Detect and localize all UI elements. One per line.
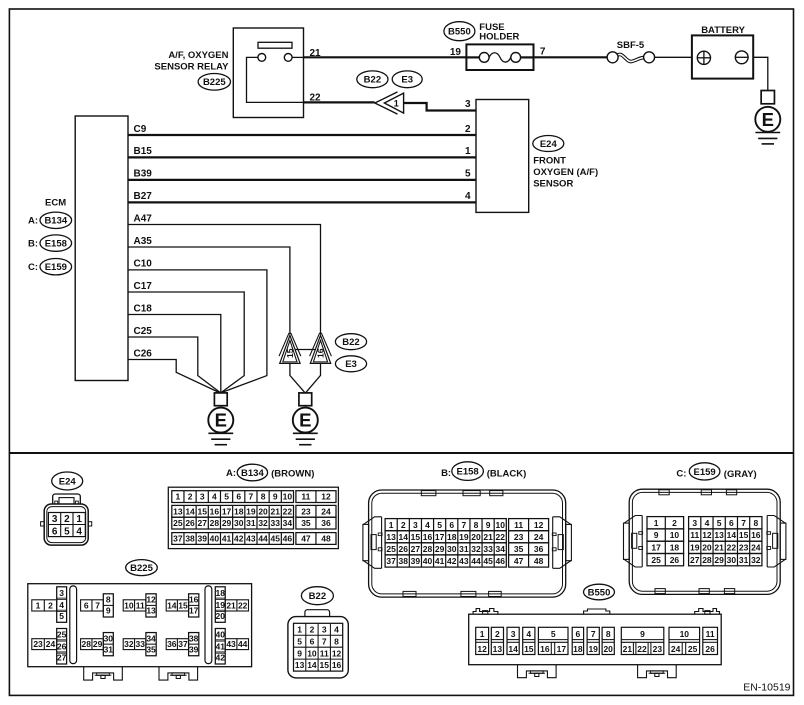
connector B134 pin grid [168,487,338,548]
svg-text:11: 11 [690,530,699,540]
svg-text:23: 23 [33,639,43,649]
svg-text:32: 32 [751,555,761,565]
svg-text:A35: A35 [134,236,153,247]
svg-text:5: 5 [551,629,556,639]
svg-text:26: 26 [57,642,67,652]
svg-text:7: 7 [591,629,596,639]
connector B550 housing [469,609,722,665]
svg-text:18: 18 [447,532,457,542]
svg-text:14: 14 [399,532,409,542]
svg-text:A:: A: [226,468,236,479]
svg-text:(BROWN): (BROWN) [271,468,314,479]
svg-text:2: 2 [465,124,471,135]
svg-text:3: 3 [413,520,418,530]
svg-text:15: 15 [197,506,207,516]
sensor name label FRONT OXYGEN (A/F) SENSOR [533,155,598,189]
svg-text:4: 4 [76,526,82,537]
svg-text:E24: E24 [59,476,77,487]
fuse holder box B550 [466,44,533,70]
svg-text:28: 28 [702,555,712,565]
svg-text:E24: E24 [540,139,558,150]
svg-text:29: 29 [714,555,724,565]
connector label B225 face [126,560,158,576]
svg-text:19: 19 [588,644,598,654]
svg-text:42: 42 [447,556,457,566]
svg-text:1: 1 [465,146,471,157]
svg-text:32: 32 [124,639,134,649]
svg-text:6: 6 [84,600,89,610]
svg-text:22: 22 [637,644,647,654]
svg-text:10: 10 [680,629,690,639]
svg-text:48: 48 [534,556,544,566]
svg-text:36: 36 [167,639,177,649]
svg-text:47: 47 [301,534,311,544]
svg-text:10: 10 [496,520,506,530]
svg-text:42: 42 [234,534,244,544]
svg-text:18: 18 [573,644,583,654]
svg-text:44: 44 [471,556,481,566]
svg-text:1: 1 [480,629,485,639]
svg-text:23: 23 [739,542,749,552]
svg-text:9: 9 [654,530,659,540]
svg-text:29: 29 [435,544,445,554]
svg-text:13: 13 [714,530,724,540]
svg-text:45: 45 [483,556,493,566]
wire ECM C26 to ground [128,360,220,393]
svg-text:17: 17 [557,644,567,654]
svg-text:21: 21 [483,532,493,542]
svg-text:E159: E159 [45,262,67,273]
relay internal wire [247,57,304,102]
svg-text:20: 20 [216,611,226,621]
wire ECM C9 to sensor pin 2 [128,134,476,136]
svg-text:E3: E3 [345,359,357,370]
wire relay pin 22 to connector [304,101,375,103]
svg-text:16: 16 [751,530,761,540]
svg-text:SBF-5: SBF-5 [617,40,645,51]
svg-text:14: 14 [167,600,177,610]
svg-text:25: 25 [688,644,698,654]
svg-text:5: 5 [224,492,229,502]
svg-text:4: 4 [425,520,430,530]
shield connector pin 16 triangle [310,333,332,364]
svg-text:41: 41 [216,642,226,652]
svg-text:5: 5 [437,520,442,530]
connector label B22 face [301,587,333,605]
relay contact left [258,54,266,62]
svg-text:27: 27 [197,518,207,528]
svg-text:30: 30 [727,555,737,565]
connector B550 pin cells [476,627,718,654]
svg-text:9: 9 [106,606,111,616]
svg-text:22: 22 [496,532,506,542]
svg-text:10: 10 [307,648,317,658]
svg-text:8: 8 [753,518,758,528]
svg-text:15: 15 [285,348,295,358]
svg-text:5: 5 [59,611,64,621]
svg-text:B550: B550 [448,27,471,38]
svg-text:8: 8 [334,636,339,646]
svg-text:15: 15 [739,530,749,540]
svg-text:25: 25 [57,630,67,640]
svg-text:15: 15 [411,532,421,542]
svg-text:E158: E158 [457,467,479,478]
svg-text:42: 42 [216,653,226,663]
svg-text:(BLACK): (BLACK) [487,468,527,479]
connector label B225 [198,74,230,91]
svg-text:2: 2 [48,600,53,610]
connector E158 left clip [363,517,382,569]
svg-text:BATTERY: BATTERY [701,25,745,36]
svg-text:20: 20 [258,506,268,516]
svg-text:20: 20 [702,542,712,552]
connector E158 pin grid [385,519,548,568]
connector label E3 [392,71,422,88]
svg-text:19: 19 [690,542,700,552]
svg-text:E: E [762,109,774,130]
svg-text:24: 24 [321,506,331,516]
connector label E24 face [52,472,83,490]
svg-text:2: 2 [495,629,500,639]
connector label E3 at shield [335,356,366,372]
svg-text:11: 11 [514,520,523,530]
svg-text:E: E [215,410,227,431]
svg-text:21: 21 [714,542,724,552]
svg-text:ECM: ECM [45,198,66,209]
svg-text:39: 39 [197,534,207,544]
svg-text:23: 23 [301,506,311,516]
connector B225 housing [28,584,252,667]
svg-text:17: 17 [222,506,232,516]
fuse holder name label [479,22,519,43]
svg-text:C10: C10 [134,259,153,270]
wire ECM B39 to sensor pin 5 [128,179,476,181]
connector B225 mounting tab right [159,667,198,680]
fuse element terminal right [511,53,521,63]
wire ECM A35 to shield connector pin 15 [128,247,290,334]
svg-text:B:: B: [441,468,451,479]
svg-text:14: 14 [185,506,195,516]
svg-text:HOLDER: HOLDER [479,32,519,43]
svg-text:18: 18 [216,588,226,598]
wire ECM B15 to sensor pin 1 [128,156,476,158]
svg-text:3: 3 [465,99,471,110]
svg-text:13: 13 [493,644,503,654]
wire fuse holder pin 7 to fuse SBF-5 [534,56,608,58]
svg-text:1: 1 [389,520,394,530]
wire ECM C25 to ground [128,337,220,393]
connector label B22 at shield [335,334,366,350]
svg-text:25: 25 [173,518,183,528]
svg-text:2: 2 [64,514,70,525]
svg-text:13: 13 [295,660,305,670]
svg-text:31: 31 [739,555,749,565]
svg-text:7: 7 [322,636,327,646]
svg-text:14: 14 [727,530,737,540]
svg-text:30: 30 [447,544,457,554]
svg-text:3: 3 [59,588,64,598]
wire ECM C18 to ground [128,315,221,393]
svg-text:33: 33 [271,518,281,528]
ground E battery [755,91,780,144]
shield connector pin 15 triangle [279,333,301,364]
front oxygen sensor box E24 [476,100,529,213]
svg-text:24: 24 [671,644,681,654]
svg-text:46: 46 [283,534,293,544]
svg-text:28: 28 [82,639,92,649]
svg-text:14: 14 [508,644,518,654]
battery box [692,35,753,78]
svg-text:8: 8 [261,492,266,502]
svg-text:9: 9 [640,629,645,639]
svg-text:11: 11 [320,648,329,658]
svg-text:FRONT: FRONT [533,155,566,166]
svg-text:18: 18 [670,542,680,552]
svg-text:19: 19 [246,506,256,516]
svg-text:B225: B225 [130,563,153,574]
svg-text:44: 44 [238,639,248,649]
svg-text:A:: A: [28,216,38,227]
svg-text:11: 11 [301,492,310,502]
svg-text:3: 3 [511,629,516,639]
svg-text:11: 11 [136,600,145,610]
svg-text:B27: B27 [134,191,153,202]
svg-text:12: 12 [332,648,342,658]
svg-text:48: 48 [321,534,331,544]
svg-text:6: 6 [449,520,454,530]
svg-text:B15: B15 [134,146,153,157]
svg-text:4: 4 [212,492,217,502]
wire fuse SBF-5 to battery [654,56,692,58]
svg-text:10: 10 [670,530,680,540]
svg-text:23: 23 [514,532,524,542]
svg-text:33: 33 [483,544,493,554]
svg-text:9: 9 [486,520,491,530]
svg-text:38: 38 [185,534,195,544]
svg-text:C9: C9 [134,124,147,135]
svg-text:28: 28 [423,544,433,554]
fuse holder internal wire left [466,56,479,58]
svg-text:16: 16 [540,644,550,654]
connector E159 pin grid [647,517,762,566]
svg-text:1: 1 [394,98,399,108]
svg-text:36: 36 [534,544,544,554]
wire ECM A47 to shield connector pin 16 [128,225,321,335]
svg-text:29: 29 [93,639,103,649]
svg-text:16: 16 [332,660,342,670]
svg-text:OXYGEN (A/F): OXYGEN (A/F) [533,167,598,178]
connector B225 pin cells [32,586,249,664]
svg-text:1: 1 [36,600,41,610]
svg-text:21: 21 [271,506,281,516]
svg-text:16: 16 [316,348,326,358]
wire relay pin 21 to fuse holder pin 19 [304,56,467,58]
svg-text:2: 2 [672,518,677,528]
svg-text:17: 17 [651,542,661,552]
svg-text:43: 43 [226,639,236,649]
svg-text:5: 5 [297,636,302,646]
svg-text:5: 5 [717,518,722,528]
svg-text:6: 6 [576,629,581,639]
svg-text:B:: B: [28,239,38,250]
svg-text:B22: B22 [309,591,326,602]
svg-text:13: 13 [386,532,396,542]
svg-text:7: 7 [741,518,746,528]
svg-text:6: 6 [236,492,241,502]
svg-text:3: 3 [322,624,327,634]
svg-text:12: 12 [534,520,544,530]
connector label B22 [357,71,388,88]
connector B225 mounting tab left [84,667,123,680]
fuse element wave [489,53,511,62]
svg-text:34: 34 [146,633,156,643]
svg-text:46: 46 [496,556,506,566]
svg-text:C26: C26 [134,348,153,359]
ground E for ECM sensor ground wires [208,393,233,445]
connector E24 pin grid [48,513,85,538]
svg-text:27: 27 [690,555,700,565]
connector label B550 [444,22,475,41]
svg-text:EN-10519: EN-10519 [743,681,790,693]
svg-text:16: 16 [210,506,220,516]
wire battery negative to ground [753,57,768,90]
svg-text:(GRAY): (GRAY) [724,469,757,480]
svg-text:2: 2 [401,520,406,530]
connector E158 right clip [552,517,571,569]
svg-text:24: 24 [534,532,544,542]
svg-text:33: 33 [135,639,145,649]
svg-text:B22: B22 [342,337,359,348]
svg-text:39: 39 [411,556,421,566]
connector E159 left clip [624,516,643,568]
svg-text:15: 15 [524,644,534,654]
svg-text:7: 7 [540,46,546,57]
svg-text:C:: C: [676,469,686,480]
svg-text:32: 32 [471,544,481,554]
wire shield triangle 16 to ground [306,364,321,393]
svg-text:2: 2 [310,624,315,634]
connector label E24 [533,136,564,152]
svg-text:B134: B134 [44,216,67,227]
svg-text:28: 28 [210,518,220,528]
wire between shield triangles [295,349,315,351]
svg-text:27: 27 [57,653,67,663]
svg-text:6: 6 [729,518,734,528]
svg-text:A47: A47 [134,213,153,224]
svg-text:43: 43 [246,534,256,544]
svg-text:21: 21 [310,48,322,59]
connector B550 mounting tab right [638,665,677,678]
svg-text:38: 38 [189,633,199,643]
connector label B: E158 (BLACK) [441,462,526,481]
connector E159 housing [629,489,780,594]
svg-text:7: 7 [249,492,254,502]
svg-text:37: 37 [178,639,188,649]
svg-text:14: 14 [307,660,317,670]
svg-text:B225: B225 [203,77,226,88]
svg-text:15: 15 [178,600,188,610]
svg-text:29: 29 [222,518,232,528]
wire ECM B27 to sensor pin 4 [128,201,476,203]
svg-text:31: 31 [459,544,469,554]
svg-text:1: 1 [297,624,302,634]
ground E for sensor shield [293,393,318,445]
svg-text:34: 34 [283,518,293,528]
wire shield triangle 15 to ground [290,364,305,393]
svg-text:36: 36 [321,518,331,528]
svg-text:C25: C25 [134,326,153,337]
svg-text:C:: C: [28,262,38,273]
svg-text:E: E [299,410,311,431]
svg-text:22: 22 [310,93,322,104]
relay coil bar [258,42,292,48]
svg-text:10: 10 [283,492,293,502]
wire connector to sensor pin 3 [404,103,476,111]
svg-text:SENSOR RELAY: SENSOR RELAY [154,62,229,73]
svg-text:4: 4 [59,600,64,610]
svg-text:27: 27 [411,544,421,554]
connector label C: E159 (GRAY) [676,463,756,480]
svg-text:35: 35 [301,518,311,528]
svg-text:21: 21 [623,644,633,654]
svg-text:C18: C18 [134,303,153,314]
connector B22 housing [288,610,348,678]
svg-text:26: 26 [399,544,409,554]
svg-text:B134: B134 [241,468,264,479]
svg-text:22: 22 [238,600,248,610]
svg-text:22: 22 [283,506,293,516]
connector E158 housing [369,490,566,597]
svg-text:19: 19 [459,532,469,542]
relay U1 box B225 [233,28,303,118]
connector label B550 face [584,584,615,600]
svg-text:40: 40 [210,534,220,544]
svg-text:6: 6 [52,526,58,537]
svg-text:44: 44 [258,534,268,544]
fuse SBF-5 symbol [607,52,655,63]
svg-text:1: 1 [176,492,181,502]
svg-text:E159: E159 [694,467,716,478]
wire ECM C10 to ground [128,270,267,393]
connector E24 face housing [41,494,92,545]
svg-text:2: 2 [188,492,193,502]
svg-text:41: 41 [435,556,445,566]
svg-text:13: 13 [173,506,183,516]
svg-text:38: 38 [399,556,409,566]
svg-text:25: 25 [386,544,396,554]
svg-text:37: 37 [386,556,396,566]
svg-text:24: 24 [46,639,56,649]
connector B550 mounting tab left [518,665,557,678]
svg-text:22: 22 [727,542,737,552]
svg-text:35: 35 [146,644,156,654]
svg-text:SENSOR: SENSOR [533,179,573,190]
svg-text:47: 47 [514,556,524,566]
svg-text:A/F, OXYGEN: A/F, OXYGEN [168,50,228,61]
ECM connector label A: B134 [28,212,72,228]
battery negative terminal [735,51,748,64]
relay name label A/F, OXYGEN SENSOR RELAY [154,50,229,73]
svg-text:9: 9 [297,648,302,658]
svg-text:1: 1 [654,518,659,528]
fuse element terminal left [479,53,489,63]
section separator line [9,452,793,454]
svg-text:4: 4 [465,191,471,202]
svg-text:8: 8 [474,520,479,530]
svg-text:23: 23 [653,644,663,654]
svg-text:31: 31 [246,518,256,528]
svg-text:31: 31 [104,644,114,654]
